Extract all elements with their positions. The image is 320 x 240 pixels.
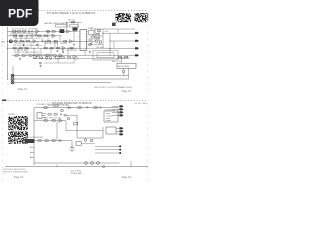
wire drop k5	[17, 48, 19, 55]
wire drop k2	[25, 36, 27, 42]
wire y63	[44, 62, 74, 64]
connector flag CN14	[120, 114, 124, 116]
wire drop b	[23, 41, 25, 48]
svg-text:R44 Q7 K1: R44 Q7 K1	[112, 61, 121, 63]
resistor R107	[38, 140, 41, 142]
capacitor C101	[86, 107, 89, 109]
resistor R15	[25, 47, 28, 49]
fuse box F1	[54, 105, 58, 107]
resistor R38b	[64, 41, 67, 43]
capacitor C19	[22, 44, 25, 46]
resistor R105	[44, 120, 47, 122]
wire drop x72	[71, 141, 73, 149]
driver box PCB2	[76, 142, 81, 146]
svg-text:R22 10K C9 .22: R22 10K C9 .22	[45, 43, 58, 45]
wire riser x118	[117, 29, 119, 33]
stub arrow s2	[31, 152, 35, 154]
wire drop d	[47, 31, 49, 41]
resistor R16	[44, 47, 47, 49]
stub arrow s3	[31, 157, 35, 159]
op-amp U1B	[67, 30, 70, 33]
svg-text:R50 1K: R50 1K	[88, 28, 95, 30]
svg-text:PDF: PDF	[8, 6, 32, 20]
feedback wire loop inner	[97, 53, 114, 58]
svg-text:Page 1/2: Page 1/2	[14, 177, 24, 179]
transistor Q3	[95, 40, 98, 43]
diode D1	[68, 107, 70, 109]
resistor R106	[52, 120, 55, 122]
svg-text:Page 1/1: Page 1/1	[122, 91, 132, 93]
svg-text:R5 47K: R5 47K	[15, 43, 22, 45]
svg-text:PS MODULE: PS MODULE	[105, 109, 116, 111]
capacitor C14 vertical	[39, 63, 42, 64]
wire row D	[12, 55, 100, 57]
connector dot c	[119, 152, 121, 154]
transistor Q6	[31, 35, 34, 38]
svg-text:CAPS IN uF UNLESS NOTED: CAPS IN uF UNLESS NOTED	[3, 171, 29, 174]
resistor R1	[13, 31, 16, 32]
pre-row wire y22	[66, 21, 82, 23]
svg-text:R41 Q3 Q4 VR2 R45 Q5: R41 Q3 Q4 VR2 R45 Q5	[33, 55, 53, 57]
wire K1 down to rails	[128, 68, 130, 79]
IC U7 (dark small)	[73, 28, 78, 31]
page 1 left tick column	[1, 13, 3, 92]
wire riser x99	[98, 29, 100, 45]
wire row C	[8, 47, 110, 49]
wire to flag 4	[110, 48, 135, 50]
wire loop frame2	[66, 121, 103, 131]
svg-text:o: o	[7, 79, 8, 81]
IC U5 (tall)	[80, 30, 87, 51]
resistor R21	[29, 55, 32, 57]
wire right mesh c	[91, 27, 93, 31]
resistor R103	[48, 114, 51, 116]
feedback wire loop outer	[93, 51, 118, 61]
page 2 dashed top margin border	[2, 100, 148, 102]
wire Q5 to rail	[123, 73, 125, 76]
resistor R2	[18, 31, 21, 32]
wire vertical riser x95	[94, 29, 96, 41]
resistor R26	[20, 35, 23, 37]
svg-text:C16 22p R38: C16 22p R38	[66, 50, 77, 52]
wire right mesh b	[88, 44, 103, 46]
cluster mid box	[56, 56, 60, 59]
wire row B	[8, 40, 95, 42]
resistor R109	[52, 140, 55, 142]
capacitor C102	[60, 113, 63, 115]
resistor R29b	[72, 21, 75, 23]
wire drop k8	[57, 41, 59, 48]
wire vertical riser x103	[102, 29, 104, 48]
small box rc2	[89, 39, 92, 41]
wire drop h7	[37, 41, 39, 48]
transistor Q5	[122, 70, 125, 73]
wire vertical riser x110	[109, 33, 111, 55]
resistor R39b	[70, 47, 73, 49]
capacitor C6	[44, 40, 47, 42]
diode D2	[64, 114, 66, 116]
wire to flag 3	[110, 40, 135, 42]
PDF badge	[0, 0, 39, 26]
wire drop e	[54, 41, 56, 48]
resistor R101	[78, 107, 81, 109]
capacitor C1	[28, 31, 31, 33]
op-amp U1A	[36, 30, 39, 33]
resistor R9	[20, 41, 23, 43]
jack J5 (effects return)	[11, 78, 14, 81]
jack J3 AUX	[9, 40, 12, 43]
page 2 right tick column	[146, 103, 148, 181]
capacitor C5	[41, 40, 44, 42]
wire drop h8	[57, 59, 59, 63]
svg-text:C22 47p R31 6.8K Q2 R33 U6: C22 47p R31 6.8K Q2 R33 U6	[13, 33, 37, 35]
page 2 left tick column	[1, 103, 3, 181]
svg-text:C8 22p R14 1K U3A R18 4.7K: C8 22p R14 1K U3A R18 4.7K C9	[13, 37, 40, 40]
op-amp U4A	[62, 46, 65, 49]
jack J6 (line out)	[11, 81, 14, 84]
op-amp U102	[59, 119, 62, 122]
transistor Q8	[49, 57, 52, 60]
resistor R14	[19, 47, 22, 49]
U101 internals	[106, 114, 112, 121]
wire drop h10	[10, 31, 12, 35]
rectifier box BR1	[106, 127, 116, 134]
connector flag CN11	[120, 105, 124, 107]
resistor R11	[48, 41, 51, 43]
resistor R25	[14, 35, 17, 37]
zener Z1	[70, 145, 75, 152]
wire flag feeds	[112, 107, 120, 116]
wire drop h2	[28, 31, 30, 35]
bottom-right relay box K1	[117, 63, 136, 68]
wire drop k1	[12, 31, 14, 35]
page 2 left edge dark dash	[2, 99, 6, 101]
wire drop k6	[26, 48, 28, 55]
resistor R36	[61, 57, 64, 59]
wire drop k3	[30, 41, 32, 48]
jack J4 (effects send)	[11, 74, 14, 77]
resistor R27b	[38, 35, 41, 37]
ground sym G4	[89, 51, 91, 54]
capacitor C18	[56, 50, 59, 52]
resistor R8	[14, 41, 17, 43]
resistor R32	[96, 34, 99, 36]
resistor R111	[44, 107, 47, 109]
svg-text:SVT-4 PRO (1+2 OF 2) PREAMP SC: SVT-4 PRO (1+2 OF 2) PREAMP SCH B	[94, 86, 132, 89]
connector flag CN3	[135, 47, 139, 49]
op-amp U6A	[52, 34, 55, 37]
transistor Q112	[84, 139, 87, 142]
IC U5 pin stubs	[79, 32, 88, 47]
wire row E	[33, 57, 75, 59]
speaker circle SP1	[85, 162, 88, 165]
long rail 2	[14, 78, 129, 80]
resistor R3	[23, 31, 26, 32]
resistor R13	[13, 47, 16, 49]
wire drop h6	[62, 48, 64, 54]
resistor R37	[68, 57, 71, 59]
svg-text:F2 8A D12 R102 10 C108: F2 8A D12 R102 10 C108	[48, 104, 69, 107]
wire drop x57	[56, 122, 58, 141]
pot box P1	[56, 25, 68, 27]
wire drop h5	[59, 36, 61, 42]
svg-text:o: o	[7, 75, 8, 77]
wire loop frame	[77, 115, 103, 138]
op-amp U3A	[33, 40, 36, 43]
wire row A	[8, 30, 72, 32]
wire drop y22a	[66, 22, 68, 29]
svg-text:Page 1/2: Page 1/2	[122, 177, 132, 179]
note block 4 (dense text)	[8, 131, 28, 143]
rail B tick	[56, 165, 58, 167]
connector flag CN1	[135, 32, 139, 34]
wire drop a	[15, 31, 17, 41]
capacitor C17	[36, 44, 39, 46]
page 1 dashed top margin border	[2, 10, 148, 12]
resistor R20	[22, 55, 25, 57]
svg-text:o: o	[7, 82, 8, 84]
wire right mesh a	[90, 35, 103, 37]
transistor Q113	[90, 139, 93, 142]
svg-text:NOTES: ALL RES 1/4W 5%: NOTES: ALL RES 1/4W 5%	[3, 168, 27, 171]
stub arrow s1	[31, 147, 35, 149]
left bus vertical	[33, 108, 35, 165]
transistor Q4	[89, 43, 92, 46]
junction dots page 1	[7, 29, 110, 77]
page 1 right tick column	[146, 13, 148, 92]
svg-text:SVT-4PRO PREAMP 1 (2 OF 2) SCH: SVT-4PRO PREAMP 1 (2 OF 2) SCHEMATIC	[47, 12, 96, 15]
long rail 3	[14, 82, 111, 84]
capacitor C10	[90, 43, 93, 45]
pot box P2	[70, 25, 79, 27]
wire drop c	[33, 48, 35, 55]
transistor Q9	[75, 57, 78, 60]
wire row A extension	[72, 30, 78, 32]
transistor Q7	[45, 57, 48, 60]
capacitor C20	[73, 44, 76, 46]
speaker circle SP3	[97, 162, 100, 165]
resistor R30	[119, 56, 122, 58]
long rail 1	[14, 75, 129, 77]
ground sym G2	[62, 51, 64, 54]
input bus wire (left vertical)	[7, 27, 9, 80]
small dark mark x112	[112, 23, 116, 26]
capacitor C2	[31, 31, 34, 33]
svg-text:AUX: AUX	[1, 40, 6, 43]
resistor R23	[46, 55, 49, 57]
svg-text:R110 220K C112 U10: R110 220K C112 U10	[44, 118, 61, 120]
speaker circle SP2	[91, 162, 94, 165]
ground sym G1	[35, 34, 37, 37]
wire y140	[35, 140, 73, 142]
note block 1 (dense text)	[115, 13, 131, 22]
IC U2 (dark)	[60, 29, 65, 33]
resistor R4	[47, 31, 50, 32]
op-amp U4B	[59, 54, 62, 57]
rail B right tick	[130, 161, 132, 167]
svg-text:S-4 OF 2 REV: S-4 OF 2 REV	[134, 103, 147, 105]
small box rc1	[98, 30, 101, 32]
connector dot a	[119, 145, 121, 147]
capacitor C7	[26, 35, 29, 37]
wire drop h4	[50, 48, 52, 55]
BR1 feeds	[116, 129, 120, 135]
small box p2a	[74, 122, 78, 125]
svg-text:U3B R20: U3B R20	[60, 43, 67, 45]
cluster box right-center	[89, 31, 95, 35]
wire to flag 5	[100, 55, 135, 57]
connector flag CN13	[120, 111, 124, 113]
row D extras: resistor R34	[34, 57, 37, 59]
connector flag CN12	[120, 108, 124, 110]
transformer T1 cluster	[37, 113, 42, 119]
connector flag CN15	[120, 127, 124, 129]
resistor R19	[15, 55, 18, 57]
wire drop f	[67, 48, 69, 55]
resistor R17	[50, 47, 53, 49]
svg-text:GAIN MID TREBLE MASTER: GAIN MID TREBLE MASTER	[44, 22, 68, 25]
wire row C extension	[68, 47, 78, 49]
ground sym G3	[19, 58, 21, 61]
rail B node	[102, 166, 104, 168]
svg-text:C33 100p: C33 100p	[96, 47, 104, 49]
resistor R104	[54, 114, 57, 116]
wire riser x114	[113, 41, 115, 49]
svg-text:C2 .047 R9 1M: C2 .047 R9 1M	[14, 50, 27, 52]
connector flag CN2	[135, 40, 139, 42]
resistor R12	[54, 41, 57, 43]
wire K1 top link	[117, 57, 130, 59]
connector dot b	[119, 149, 121, 151]
resistor R33b	[96, 38, 99, 40]
regulator box U101	[104, 111, 118, 122]
connector flag CN17	[120, 133, 124, 135]
wire drop h9	[84, 51, 86, 56]
wire drop h1	[20, 36, 22, 42]
top rail wire	[34, 107, 118, 109]
wire right drop	[117, 108, 119, 116]
note block 2 (dense text)	[135, 13, 149, 22]
resistor R35	[40, 57, 43, 59]
wire drop y63	[73, 58, 75, 63]
dark blob heat sink	[25, 139, 35, 143]
transistor Q101	[61, 109, 64, 112]
wire drop y22b	[77, 22, 79, 28]
bottom rail B	[5, 166, 148, 168]
wire drop g	[73, 31, 75, 41]
wire drop k7	[40, 48, 42, 55]
ground sym G5	[39, 65, 41, 68]
resistor R108	[45, 140, 48, 142]
resistor R22	[36, 55, 39, 57]
transistor Q10	[99, 41, 102, 44]
connector flag CN4	[135, 54, 139, 56]
resistor R112	[94, 107, 97, 109]
resistor R28	[44, 35, 47, 37]
svg-text:POWER AMP: POWER AMP	[70, 172, 82, 175]
svg-text:R40 C31: R40 C31	[68, 19, 75, 21]
svg-text:Page 1/1: Page 1/1	[18, 89, 28, 91]
svg-text:NOTES:: NOTES:	[8, 114, 15, 116]
resistor R5	[52, 31, 55, 32]
wire Q5 drop	[123, 68, 125, 70]
transistor Q2	[92, 36, 95, 39]
resistor R18	[57, 47, 60, 49]
connector flag CN16	[120, 130, 124, 132]
wire PCB2 stub	[81, 142, 95, 144]
wire ext y115	[66, 114, 77, 116]
note block 3 (dense text)	[8, 116, 28, 130]
wire to flag 1	[95, 28, 135, 30]
wire drop h3	[41, 36, 43, 42]
wires to dots	[95, 146, 120, 153]
wire Q9 out	[77, 57, 128, 59]
resistor R31	[125, 56, 128, 58]
transistor Q1	[73, 56, 76, 59]
op-amp U3B	[70, 40, 73, 43]
svg-text:Q110 Q111 MJE15030: Q110 Q111 MJE15030	[25, 137, 43, 139]
wire drop k4	[44, 41, 46, 48]
wire drop to jacks	[12, 66, 14, 74]
transistor Q103	[67, 117, 70, 120]
bottom rail A	[34, 162, 120, 164]
wire mid link	[34, 120, 66, 122]
wire K1 riser	[121, 57, 123, 63]
resistor R24	[53, 55, 56, 57]
capacitor C115	[99, 107, 102, 109]
svg-text:MUTE RELAY: MUTE RELAY	[118, 65, 130, 68]
diode D3	[59, 140, 61, 142]
wire row A2	[8, 35, 62, 37]
resistor R10	[27, 41, 30, 43]
wire to flag 2	[103, 32, 135, 34]
svg-text:R1 10K R3 47K C4 .047 U1A: R1 10K R3 47K C4 .047 U1A R7	[12, 27, 38, 30]
